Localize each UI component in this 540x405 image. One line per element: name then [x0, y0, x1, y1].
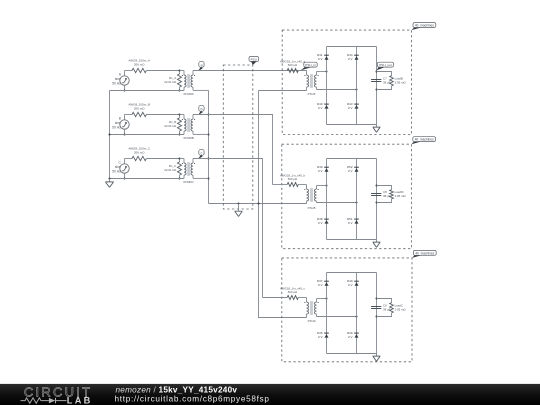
svg-text:XFMRB: XFMRB: [183, 136, 194, 140]
junction output bottom unit 1: [376, 89, 378, 91]
svg-text:sine: sine: [115, 165, 121, 169]
resistor AWG8_100m_B 206 m&#8486;: [125, 103, 150, 117]
svg-text:1.95 mΩ: 1.95 mΩ: [395, 194, 407, 198]
diode D40 unit 1: [317, 102, 329, 110]
svg-text:0 V: 0 V: [348, 221, 353, 225]
svg-text:0 V: 0 V: [318, 221, 323, 225]
resistor AWG18_1m_x40_a 500 &#181;&#8486; unit 1: [280, 59, 306, 72]
transformer PSU9 unit 3: [304, 298, 318, 323]
resistor Rc_B 22.01 k&#8486;: [164, 115, 181, 135]
svg-text:40_machines: 40_machines: [415, 138, 434, 142]
transformer PSU6 unit 1: [304, 71, 318, 96]
junction left column: [326, 71, 328, 73]
junction neutral/ground stub: [238, 203, 240, 205]
wire source bottom lead: [124, 129, 126, 134]
svg-text:1.95 mΩ: 1.95 mΩ: [395, 307, 407, 311]
wire AWG18 to primary: [298, 297, 306, 299]
wire resistor to primary node: [146, 158, 179, 160]
svg-text:40_machines: 40_machines: [415, 24, 434, 28]
resistor AWG18_1m_x40_c 500 &#181;&#8486; unit 3: [280, 286, 306, 299]
wire resistor to primary node: [146, 70, 179, 72]
resistor LoadM 1.95 m&#8486; unit 2: [377, 186, 407, 203]
svg-text:XFMRA: XFMRA: [183, 92, 194, 96]
diode D52 unit 2: [347, 165, 359, 173]
ground PSU neutral: [235, 204, 243, 217]
wire unit3 feed: [263, 297, 288, 299]
wire left supply bus: [109, 91, 111, 179]
wire primary bottom rail: [110, 90, 185, 92]
wire phase C feed to unit 3: [193, 159, 263, 298]
junction Rc bottom: [179, 90, 181, 92]
svg-text:LAB: LAB: [67, 396, 93, 405]
svg-text:1.95 mΩ: 1.95 mΩ: [395, 80, 407, 84]
junction left column: [326, 185, 328, 187]
wire primary bottom rail: [110, 134, 185, 136]
wire source bottom lead: [124, 85, 126, 90]
wire source top lead: [124, 115, 126, 120]
junction neutral/phase B bottom: [208, 134, 210, 136]
junction neutral/phase C bottom: [208, 178, 210, 180]
wire secondary bottom to bridge mid column: [317, 202, 357, 204]
svg-text:500 µΩ: 500 µΩ: [288, 177, 298, 181]
wire AWG18 to primary: [298, 184, 306, 186]
resistor AWG18_1m_x40_b 500 &#181;&#8486; unit 2: [280, 173, 306, 186]
junction output top unit 2: [376, 185, 378, 187]
svg-text:0 V: 0 V: [348, 57, 353, 61]
svg-text:0 V: 0 V: [318, 106, 323, 110]
junction Rc top: [179, 70, 181, 72]
flag 40_machines unit 3: [412, 250, 436, 258]
wire phase B feed to unit 2: [193, 115, 273, 185]
junction source bottom: [124, 90, 126, 92]
svg-text:0 V: 0 V: [348, 106, 353, 110]
svg-text:http://circuitlab.com/c8p6mpye: http://circuitlab.com/c8p6mpye58fsp: [115, 394, 270, 403]
transformer XFMRC: [180, 159, 196, 185]
dashed module box unit 3: [282, 258, 412, 362]
svg-text:38 µF: 38 µF: [383, 194, 391, 198]
voltage source V_C (C sine 50 Hz): [112, 161, 129, 174]
svg-text:c: c: [201, 152, 203, 156]
dashed module box unit 2: [282, 144, 412, 249]
svg-text:22.01 kΩ: 22.01 kΩ: [164, 80, 177, 84]
junction Rc top: [179, 114, 181, 116]
wire phase A secondary top to PSU unit 1: [193, 70, 307, 72]
diode D48 unit 2: [317, 217, 329, 225]
flag net a: [198, 61, 204, 71]
junction output top unit 3: [376, 298, 378, 300]
svg-text:PSU8: PSU8: [308, 206, 316, 210]
flag PSU_out: [377, 62, 394, 70]
dashed module box unit 1: [282, 30, 411, 134]
annotation box PSU (dashed): [223, 65, 253, 209]
svg-text:PSU: PSU: [251, 57, 257, 61]
junction bus/phase B rail: [109, 134, 111, 136]
svg-text:22.01 kΩ: 22.01 kΩ: [164, 168, 177, 172]
junction left column: [326, 298, 328, 300]
wire unit2 feed: [273, 184, 288, 186]
svg-text:22.01 kΩ: 22.01 kΩ: [164, 124, 177, 128]
transformer XFMRB: [180, 115, 196, 141]
svg-text:0 V: 0 V: [348, 169, 353, 173]
wire neutral rail: [209, 203, 307, 205]
wire phase B secondary bottom: [193, 133, 209, 135]
junction return/neutral rail: [258, 203, 260, 205]
transformer XFMRA: [180, 71, 196, 97]
flag PSU_in: [301, 62, 317, 70]
footer credits: [115, 385, 270, 403]
junction bus/phase C rail: [109, 178, 111, 180]
voltage source V_B (B sine 50 Hz): [112, 117, 129, 130]
junction source bottom: [124, 134, 126, 136]
wire source top lead: [124, 71, 126, 76]
wire source bottom lead: [124, 173, 126, 178]
junction mid column: [356, 89, 358, 91]
wire bridge frame unit 3: [327, 273, 377, 354]
diode D49 unit 2: [317, 165, 329, 173]
svg-text:206 mΩ: 206 mΩ: [134, 151, 145, 155]
CircuitLab logo: [21, 385, 93, 405]
wire secondary top to bridge left column: [317, 71, 327, 73]
wire resistor to primary node: [146, 114, 179, 116]
wire source top lead: [124, 159, 126, 164]
wire unit1 return drop / unit3 return riser: [259, 91, 307, 318]
svg-text:206 mΩ: 206 mΩ: [134, 63, 145, 67]
resistor LoadC 1.95 m&#8486; unit 3: [377, 299, 407, 317]
ground unit 3: [373, 354, 381, 362]
diode D41 unit 1: [317, 53, 329, 61]
wire secondary top to bridge left column: [317, 185, 327, 187]
junction Rc top: [179, 158, 181, 160]
junction neutral/phase B top: [208, 114, 210, 116]
ground unit 1: [373, 125, 381, 133]
svg-text:0 V: 0 V: [318, 283, 323, 287]
svg-text:40_machines: 40_machines: [415, 251, 434, 255]
junction mid column: [356, 202, 358, 204]
diode D51 unit 2: [347, 217, 359, 225]
svg-text:sine: sine: [115, 77, 121, 81]
svg-text:PSU6: PSU6: [308, 92, 316, 96]
footer bar: [0, 384, 540, 405]
wire bridge frame unit 2: [327, 159, 377, 240]
svg-text:sine: sine: [115, 121, 121, 125]
wire bridge frame unit 1: [327, 47, 377, 125]
diode D40 unit 3: [347, 279, 359, 287]
diode D37 unit 3: [317, 279, 329, 287]
wire secondary bottom to bridge mid column: [317, 89, 357, 91]
resistor Rc_C 22.01 k&#8486;: [164, 159, 181, 179]
svg-text:nemozen / 15kv_YY_415v240v: nemozen / 15kv_YY_415v240v: [116, 385, 238, 394]
ground unit 2: [373, 240, 381, 248]
junction output top unit 1: [376, 71, 378, 73]
svg-text:0 V: 0 V: [318, 169, 323, 173]
wire unit1 return horizontal: [259, 90, 307, 92]
diode D43 unit 1: [347, 102, 359, 110]
resistor AWG8_100m_C 206 m&#8486;: [125, 147, 151, 161]
diode D39 unit 3: [347, 331, 359, 339]
svg-text:500 µΩ: 500 µΩ: [288, 63, 298, 67]
svg-text:b: b: [200, 108, 202, 112]
svg-text:50 Hz: 50 Hz: [112, 81, 121, 85]
svg-text:500 µΩ: 500 µΩ: [288, 290, 298, 294]
flag net b: [198, 105, 204, 115]
wire AWG18 to primary: [298, 70, 306, 72]
flag PSU: [249, 57, 259, 66]
capacitor C6 38 &#181;F unit 3: [371, 303, 391, 311]
transformer PSU8 unit 2: [304, 185, 318, 210]
svg-text:PSU_in: PSU_in: [305, 63, 316, 67]
svg-text:PSU9: PSU9: [308, 319, 316, 323]
resistor Rc_A 22.01 k&#8486;: [164, 71, 181, 91]
junction mid column: [356, 316, 358, 318]
svg-text:0 V: 0 V: [318, 335, 323, 339]
svg-text:206 mΩ: 206 mΩ: [134, 107, 145, 111]
junction output bottom unit 2: [376, 202, 378, 204]
capacitor C8 38 &#181;F unit 2: [371, 190, 391, 198]
diode D44 unit 1: [347, 53, 359, 61]
wire primary bottom rail: [110, 178, 185, 180]
wire secondary bottom to bridge mid column: [317, 316, 357, 318]
resistor AWG8_100m_A 206 m&#8486;: [125, 59, 150, 73]
capacitor C7 38 &#181;F unit 1: [371, 76, 391, 84]
junction neutral/phase C top: [208, 158, 210, 160]
flag net c: [198, 149, 204, 159]
svg-text:50 Hz: 50 Hz: [112, 125, 121, 129]
wire neutral vertical: [208, 90, 210, 203]
svg-text:0 V: 0 V: [348, 283, 353, 287]
flag 40_machines unit 2: [411, 137, 435, 145]
wire phase A secondary bottom: [193, 89, 209, 91]
svg-text:PSU_out: PSU_out: [379, 63, 392, 67]
junction output bottom unit 3: [376, 316, 378, 318]
junction source bottom: [124, 178, 126, 180]
ground left supply: [105, 179, 113, 188]
resistor LoadB 1.95 m&#8486; unit 1: [377, 72, 407, 90]
svg-text:50 Hz: 50 Hz: [112, 169, 121, 173]
junction Rc bottom: [179, 178, 181, 180]
wire phase C secondary bottom: [193, 177, 209, 179]
wire secondary top to bridge left column: [317, 298, 327, 300]
svg-text:0 V: 0 V: [318, 57, 323, 61]
svg-text:0 V: 0 V: [348, 335, 353, 339]
svg-text:XFMRC: XFMRC: [183, 180, 194, 184]
diode D36 unit 3: [317, 331, 329, 339]
voltage source V_A (A sine 50 Hz): [112, 73, 129, 86]
junction Rc bottom: [179, 134, 181, 136]
flag 40_machines unit 1: [412, 23, 436, 31]
